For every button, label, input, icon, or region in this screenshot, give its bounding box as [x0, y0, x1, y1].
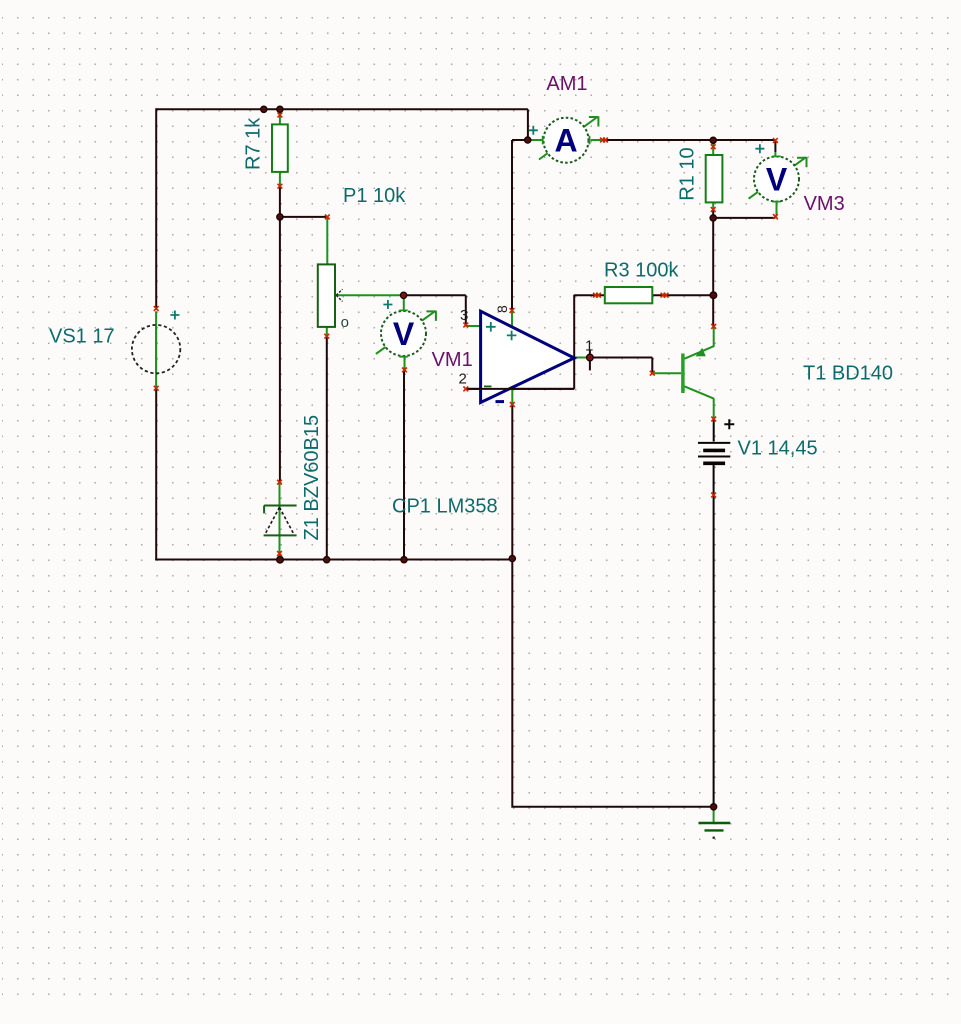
svg-text:AM1: AM1 [546, 73, 587, 95]
svg-text:VM3: VM3 [804, 193, 845, 215]
svg-text:o: o [341, 314, 349, 331]
svg-text:V1 14,45: V1 14,45 [738, 438, 818, 460]
svg-text:1: 1 [585, 338, 593, 355]
svg-text:CP1 LM358: CP1 LM358 [392, 496, 498, 518]
svg-text:R3 100k: R3 100k [604, 259, 679, 281]
svg-text:V: V [766, 161, 788, 197]
svg-text:VS1 17: VS1 17 [49, 326, 115, 348]
svg-text:R7 1k: R7 1k [243, 117, 265, 170]
svg-text:VM1: VM1 [432, 349, 473, 371]
svg-text:P1 10k: P1 10k [343, 185, 406, 207]
svg-text:V: V [393, 316, 415, 352]
svg-text:2: 2 [459, 371, 467, 388]
svg-text:8: 8 [494, 305, 510, 313]
svg-text:A: A [554, 123, 577, 159]
svg-text:Z1 BZV60B15: Z1 BZV60B15 [301, 415, 323, 541]
svg-text:3: 3 [460, 307, 468, 324]
svg-text:T1 BD140: T1 BD140 [803, 363, 893, 385]
svg-text:R1 10: R1 10 [677, 147, 699, 200]
